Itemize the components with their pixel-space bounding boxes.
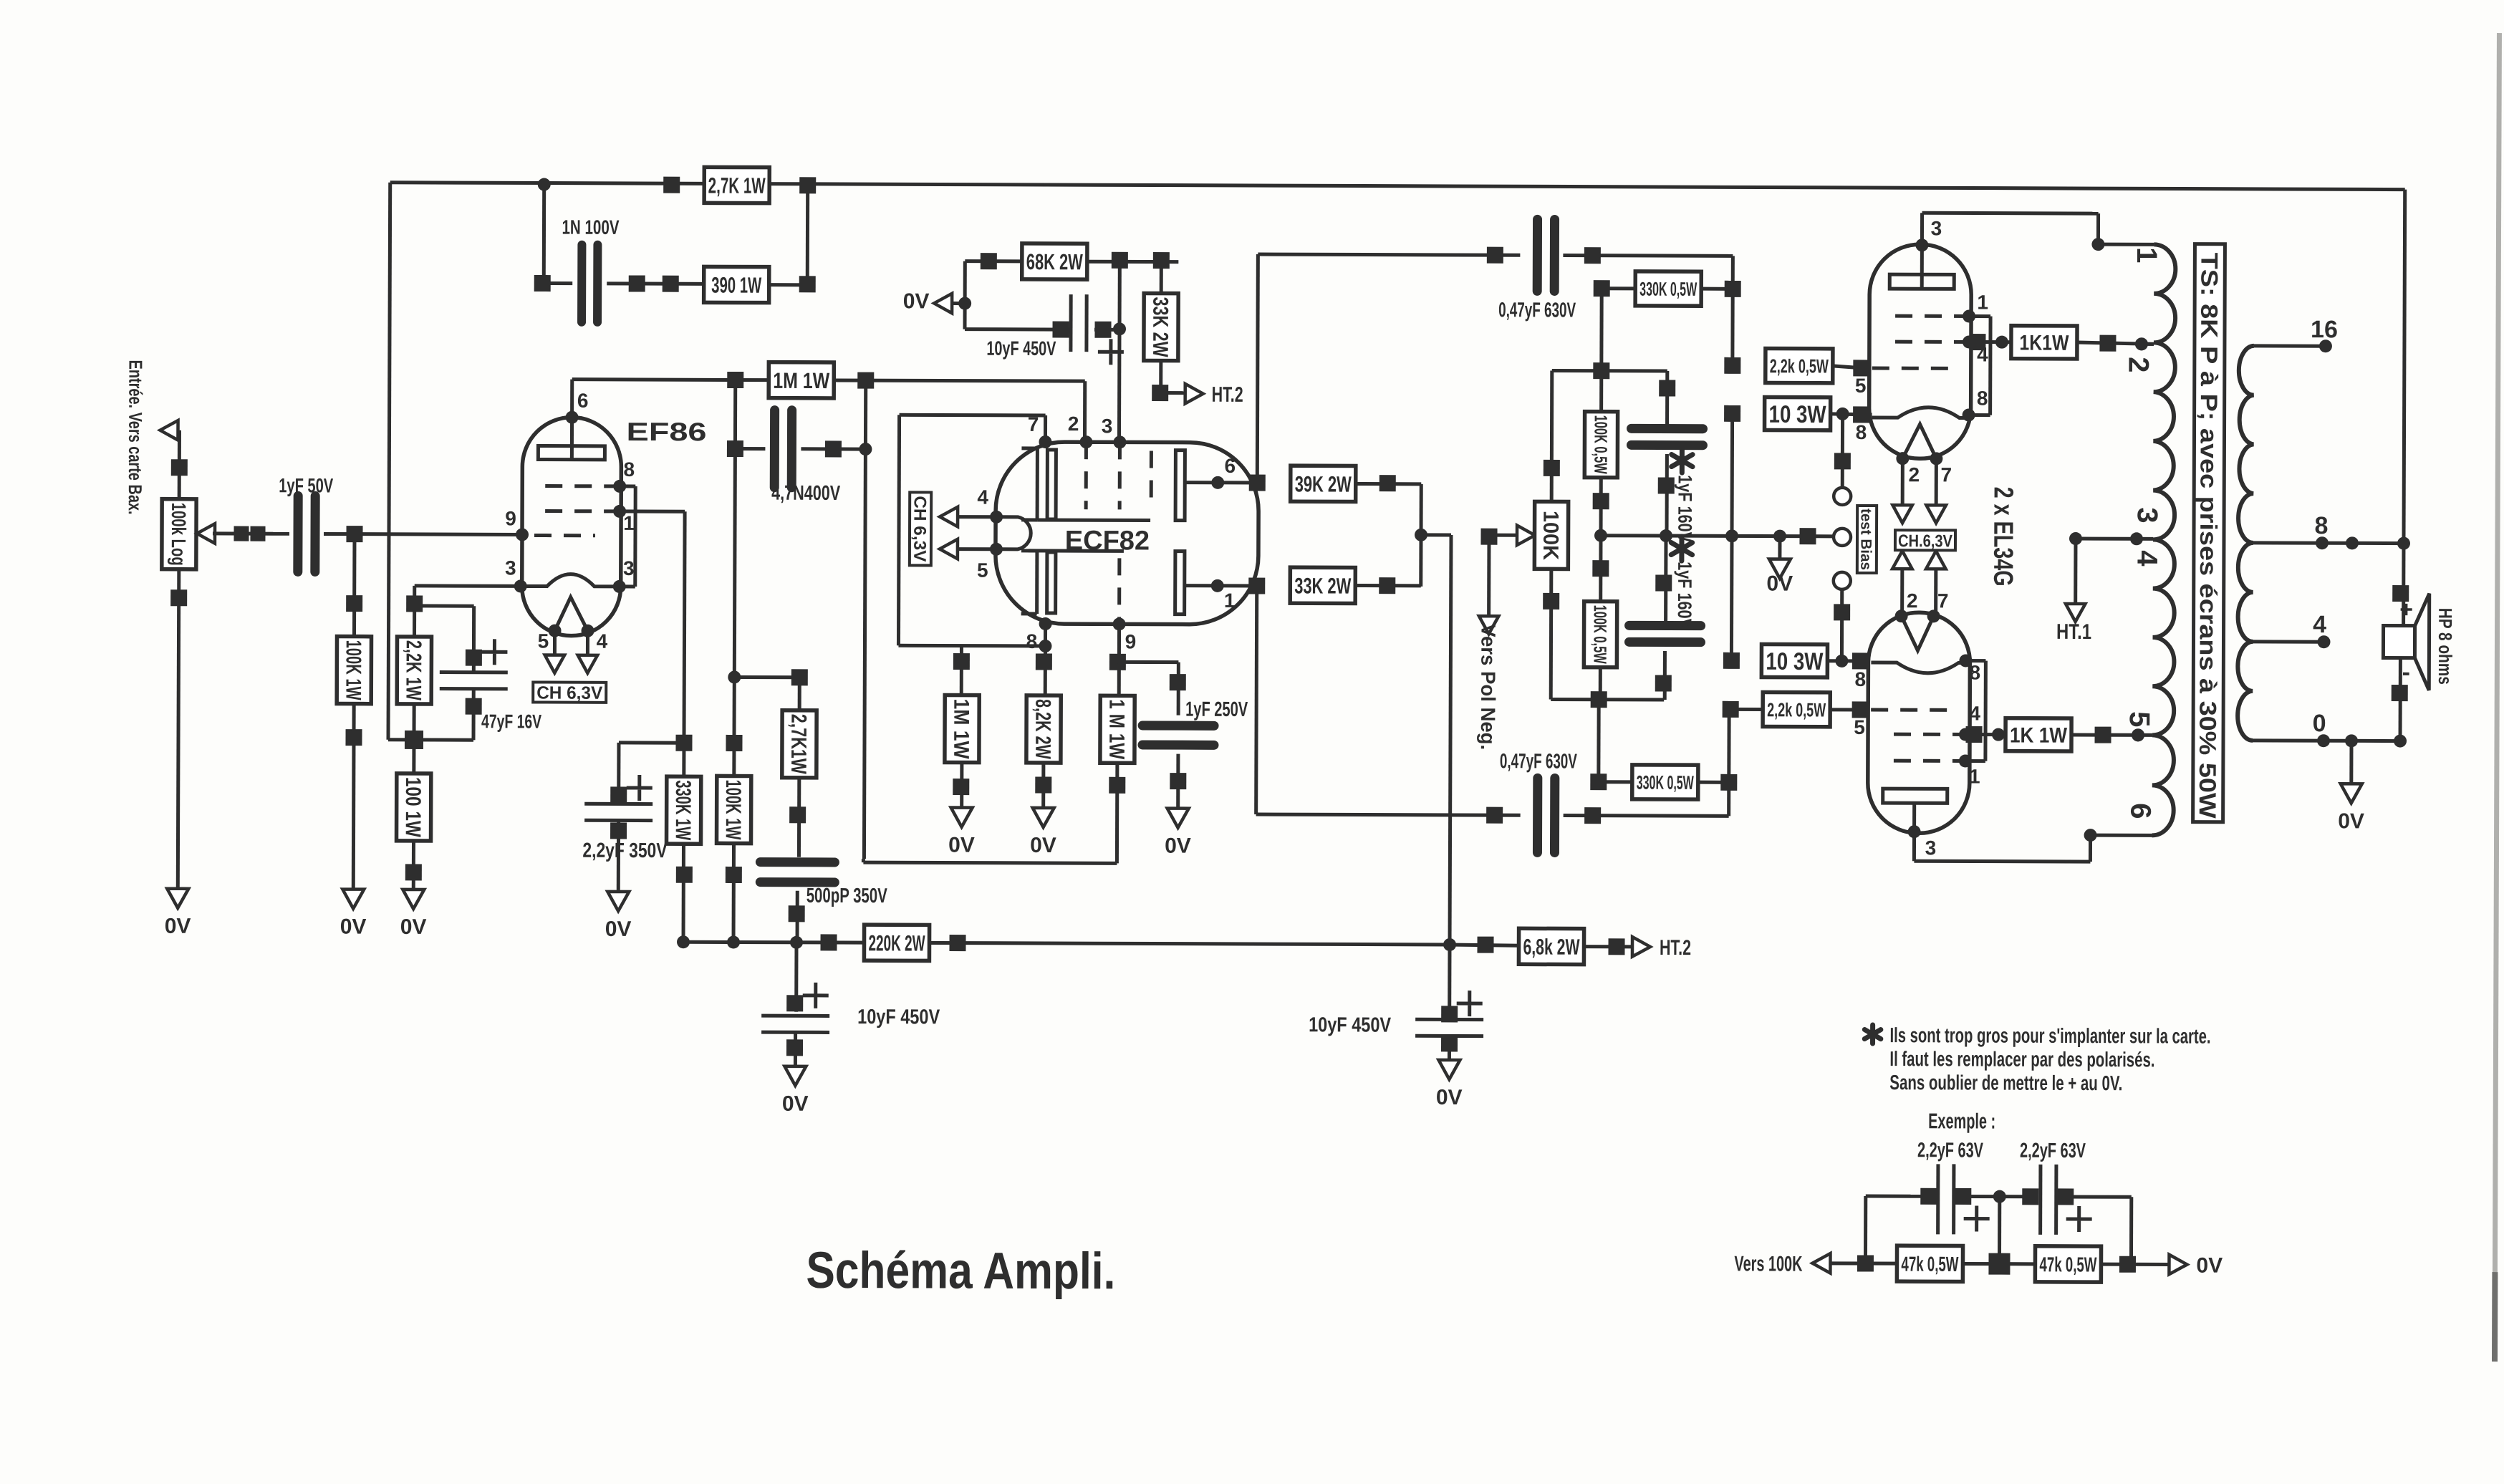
svg-text:500pP 350V: 500pP 350V: [806, 885, 888, 907]
EL34 bottom pins bracket 8-4-1: [1959, 654, 1972, 667]
arrow HT.2 output: [1185, 384, 1203, 404]
wire upper plate node to top coupling cap: [1257, 254, 1258, 483]
EL34 top pin 3 plate: [1915, 238, 1928, 251]
wire speaker bottom to 0 tap: [2399, 658, 2402, 741]
wire pot top lead: [1550, 370, 1554, 501]
wire pin9 leak return to grid node: [863, 862, 1117, 863]
svg-text:8: 8: [1977, 387, 1988, 410]
svg-text:0V: 0V: [1030, 834, 1056, 857]
resistor R 100 1W feedback: [412, 740, 415, 774]
label asterisk 1yF 160V upper: [1672, 448, 1693, 473]
svg-text:5: 5: [1855, 375, 1867, 397]
capacitor C 500pP 350V: [760, 857, 834, 867]
EF86 heater pin 4 arrow: [586, 631, 589, 656]
svg-text:10 3W: 10 3W: [1769, 401, 1827, 428]
example right loop down: [2129, 1197, 2133, 1264]
capacitor C 4,7N 400V parallel: [733, 380, 737, 448]
svg-text:5: 5: [2124, 711, 2155, 727]
wire pot bottom lead: [1549, 569, 1554, 699]
resistor R 100K 0,5W lower: [1599, 536, 1602, 602]
resistor R 330K 0,5W bottom: [1597, 700, 1600, 782]
EL34 bottom getter: [1883, 789, 1947, 803]
resistor R 8,2K 2W ECF82 pin8: [1044, 624, 1047, 696]
svg-text:47yF 16V: 47yF 16V: [481, 710, 541, 732]
svg-text:4: 4: [2131, 550, 2162, 567]
resistor R 2,2k 0,5W top grid: [1724, 357, 1740, 374]
wire feedback right vertical down to 8-ohm tap: [2404, 190, 2405, 544]
svg-text:5: 5: [1854, 716, 1865, 738]
resistor R 2,2K 1W cathode: [397, 637, 431, 704]
ECF82 internal cathode lines: [1036, 449, 1039, 520]
label CH.6,3V EL34 heaters: [1895, 530, 1955, 550]
svg-text:1N 100V: 1N 100V: [562, 216, 619, 238]
capacitor C 47yF 16V cathode bypass: [481, 639, 507, 665]
svg-text:7: 7: [1937, 589, 1949, 612]
svg-text:0V: 0V: [782, 1092, 809, 1116]
capacitor C 10yF 450V left filter: [794, 943, 798, 1012]
example capacitor 2,2yF 63V right: [2022, 1188, 2038, 1205]
wire EF86 plate pin6 up and right: [570, 380, 574, 418]
label CH 6,3V EF86 heater: [533, 682, 606, 702]
example arrow 0V: [2169, 1255, 2187, 1275]
ECF82 internal connect lines: [1037, 518, 1150, 522]
svg-text:2: 2: [1908, 463, 1920, 486]
svg-text:10yF 450V: 10yF 450V: [986, 337, 1056, 360]
capacitor C 1yF 160V lower: [1664, 536, 1667, 621]
ground 0V 1yF 250V: [1167, 809, 1189, 828]
svg-text:16: 16: [2311, 316, 2338, 343]
svg-text:CH 6,3V: CH 6,3V: [910, 496, 929, 562]
EF86 pin 1 dashed row: [545, 509, 620, 513]
svg-text:3: 3: [1925, 837, 1937, 859]
svg-text:220K 2W: 220K 2W: [868, 930, 925, 955]
wire 39K-33K join vertical: [1419, 484, 1422, 587]
wire EF86 pin3 cathode to 2,2K: [415, 584, 521, 588]
svg-text:0V: 0V: [400, 915, 427, 939]
transformer T1 secondary winding: [2238, 346, 2254, 741]
svg-text:6: 6: [1225, 455, 1236, 477]
svg-text:1M 1W: 1M 1W: [773, 368, 830, 393]
capacitor C 0,47yF 630V top: [1533, 219, 1542, 291]
svg-text:2: 2: [1907, 589, 1918, 612]
svg-text:1yF 160V: 1yF 160V: [1674, 562, 1695, 629]
resistor R 2,7K1W branch: [734, 675, 799, 679]
capacitor C 1yF 250V: [1117, 660, 1178, 664]
svg-text:3: 3: [1102, 415, 1113, 437]
capacitor C 0,47yF 630V bottom: [1533, 778, 1542, 852]
svg-text:6: 6: [577, 390, 589, 412]
node A top-rail junction x=757: [538, 178, 551, 191]
resistor R 330K 1W from EF86 pin1: [675, 735, 692, 751]
svg-text:8: 8: [623, 458, 635, 481]
svg-text:33K 2W: 33K 2W: [1148, 297, 1172, 357]
example mid junction: [1988, 1253, 2010, 1275]
svg-text:6: 6: [2124, 803, 2156, 819]
svg-text:2,2yF 350V: 2,2yF 350V: [582, 839, 668, 862]
svg-text:0V: 0V: [605, 917, 632, 941]
svg-text:0V: 0V: [2196, 1254, 2223, 1278]
svg-text:100K 1W: 100K 1W: [721, 779, 745, 840]
wire cap to EF86 grid pin 9: [324, 532, 522, 536]
ground 0V 8,2K: [1033, 808, 1054, 827]
EL34 top getter: [1889, 274, 1954, 289]
EF86 heater V: [555, 597, 588, 631]
svg-text:1yF 250V: 1yF 250V: [1185, 698, 1248, 721]
EL34 top heater V: [1902, 424, 1936, 458]
svg-text:9: 9: [505, 507, 516, 529]
EF86 cathode line and arc pin 3: [514, 579, 527, 592]
resistor R 100K 1W grid leak: [353, 534, 355, 890]
svg-text:100K 1W: 100K 1W: [341, 640, 365, 701]
svg-text:100 1W: 100 1W: [401, 777, 425, 838]
svg-text:0: 0: [2313, 710, 2326, 737]
svg-text:0V: 0V: [2338, 809, 2364, 833]
resistor R 10 3W top cathode: [1730, 413, 1735, 536]
svg-text:Vers Pol Neg.: Vers Pol Neg.: [1477, 624, 1500, 750]
EF86 heater pin 5 arrow: [553, 631, 557, 656]
potentiometer P1 100k Log: [162, 499, 196, 569]
svg-text:0V: 0V: [903, 289, 930, 313]
ground 0V feedback resistor: [403, 890, 424, 909]
svg-text:3: 3: [505, 556, 516, 579]
potentiometer P2 100K bias: [1489, 534, 1518, 537]
pot wiper arrow: [197, 524, 215, 544]
arrow HT.1 center tap: [2074, 539, 2077, 603]
ground 0V bias rail: [1778, 536, 1781, 559]
svg-text:3: 3: [623, 557, 635, 579]
svg-text:33K 2W: 33K 2W: [1294, 573, 1352, 598]
svg-text:8: 8: [1970, 661, 1981, 683]
resistor R 1M 1W below heater loop: [960, 646, 963, 695]
EL34 top cathode arc: [1872, 408, 1968, 418]
svg-text:330K 0,5W: 330K 0,5W: [1639, 279, 1697, 300]
svg-text:330K 1W: 330K 1W: [671, 780, 695, 841]
svg-text:68K 2W: 68K 2W: [1026, 249, 1084, 274]
resistor R 100K 0,5W upper: [1599, 371, 1603, 413]
svg-text:4: 4: [977, 486, 988, 509]
EL34 top pins bracket 1-4-8: [1969, 314, 1990, 318]
example resistor 47k 0,5W left: [1897, 1245, 1963, 1281]
resistor R 1K1W top screen: [1978, 340, 2011, 344]
svg-text:10yF 450V: 10yF 450V: [1309, 1013, 1392, 1036]
terminal test bias mid: [1834, 529, 1851, 546]
svg-text:Entrée. Vers carte Bax.: Entrée. Vers carte Bax.: [125, 360, 147, 515]
svg-text:1M 1W: 1M 1W: [949, 699, 973, 760]
svg-text:8,2K 2W: 8,2K 2W: [1031, 699, 1054, 760]
svg-text:1: 1: [1977, 291, 1988, 314]
svg-text:1yF 50V: 1yF 50V: [279, 474, 333, 496]
arrow 0V screen filter: [934, 294, 952, 314]
EL34 bottom cathode arc: [1871, 662, 1967, 673]
svg-text:1: 1: [623, 512, 635, 534]
EF86 pin 6 plate top: [566, 411, 579, 424]
arrow HT.2 right output: [1632, 937, 1650, 957]
resistor R 33K 2W to HT.2: [1160, 261, 1163, 294]
ECF82 internal plate bars: [1047, 450, 1056, 519]
wire cathode resistor bottom to feedback node: [413, 704, 416, 740]
EL34 bottom pin 3 plate: [1908, 825, 1921, 838]
EL34 bottom plate wire to transformer: [1912, 832, 1916, 861]
speaker HP 8 ohms: [2383, 626, 2414, 658]
svg-text:100k Log: 100k Log: [168, 503, 190, 566]
terminal test bias bottom: [1834, 572, 1851, 589]
svg-text:330K 0,5W: 330K 0,5W: [1637, 772, 1694, 794]
svg-text:10yF 450V: 10yF 450V: [857, 1006, 940, 1028]
svg-text:Vers 100K: Vers 100K: [1734, 1252, 1802, 1276]
svg-text:EF86: EF86: [626, 417, 706, 446]
note asterisk remark: [1864, 1025, 1881, 1044]
ground 0V 1M: [951, 808, 973, 827]
svg-text:100K 0,5W: 100K 0,5W: [1589, 605, 1609, 664]
svg-text:2,2yF 63V: 2,2yF 63V: [2020, 1139, 2086, 1162]
ground 0V left filter: [784, 1066, 806, 1086]
transformer primary taps 3 4 center: [2076, 537, 2153, 541]
ground 0V pot bottom: [167, 889, 188, 908]
resistor R 2,2k 0,5W bottom grid: [1723, 701, 1739, 718]
svg-text:1K1W: 1K1W: [2019, 332, 2069, 355]
tube V4 EL34 bottom envelope: [1868, 612, 1970, 833]
svg-text:6,8k 2W: 6,8k 2W: [1523, 934, 1580, 959]
svg-text:Schéma Ampli.: Schéma Ampli.: [806, 1242, 1115, 1301]
svg-text:100K 0,5W: 100K 0,5W: [1590, 415, 1610, 474]
EL34 top plate wire to transformer: [1920, 213, 1924, 245]
ground 0V right filter: [1438, 1060, 1460, 1079]
svg-text:2,2k 0,5W: 2,2k 0,5W: [1770, 355, 1829, 377]
wire feedback left vertical x=542 down to cathode node: [388, 183, 390, 740]
example mid vertical: [1998, 1197, 2001, 1255]
svg-text:1: 1: [1224, 589, 1236, 612]
wire stub down from rail to 390 row: [542, 185, 546, 284]
svg-text:8: 8: [1854, 668, 1866, 690]
svg-text:9: 9: [1125, 630, 1137, 652]
transformer primary tap 2: [2142, 342, 2154, 346]
transformer T1 primary winding: [2152, 244, 2176, 835]
capacitor C 2,2yF 350V: [619, 741, 684, 744]
svg-text:2,7K 1W: 2,7K 1W: [708, 173, 766, 198]
resistor R 1K 1W bottom screen: [1974, 733, 2005, 736]
wire plate node down x=1025: [734, 448, 736, 776]
wire speaker from 8 tap: [2402, 544, 2405, 626]
svg-text:1 M 1W: 1 M 1W: [1104, 699, 1128, 760]
svg-text:-: -: [2402, 659, 2410, 686]
resistor R 2,7K 1W: [663, 177, 680, 193]
svg-text:5: 5: [977, 559, 988, 582]
svg-text:0V: 0V: [1436, 1086, 1463, 1109]
label CH 6,3V ECF82 heater: [910, 492, 931, 565]
example capacitor 2,2yF 63V left: [1936, 1164, 1940, 1234]
wire ECF82 pin2 grid drop: [1083, 381, 1087, 441]
svg-text:CH.6,3V: CH.6,3V: [1898, 531, 1952, 551]
resistor R 1M 1W plate to ECF82 grid: [769, 362, 834, 398]
ECF82 bottom pins 8 9: [1039, 617, 1052, 630]
resistor R 220K 2W dropper: [820, 934, 837, 950]
svg-text:10 3W: 10 3W: [1766, 648, 1824, 675]
wire top cap to grid column: [1730, 256, 1735, 365]
svg-text:HP 8 ohms: HP 8 ohms: [2435, 608, 2456, 685]
ECF82 top pins 7 2 3: [1039, 435, 1051, 448]
ECF82 internal dashed grids: [1084, 442, 1088, 509]
wire HT.2 long rail y=1318: [683, 942, 1450, 945]
transformer primary tap 5: [2132, 728, 2144, 741]
svg-text:39K 2W: 39K 2W: [1295, 471, 1352, 496]
svg-text:Il faut les remplacer par des: Il faut les remplacer par des polarisés.: [1889, 1048, 2154, 1071]
svg-text:0V: 0V: [340, 915, 367, 939]
svg-text:3: 3: [1931, 217, 1942, 239]
svg-text:4,7N400V: 4,7N400V: [771, 482, 841, 505]
wire feedback node horizontal: [388, 738, 473, 741]
example top loop wire: [1864, 1196, 1867, 1263]
svg-text:390 1W: 390 1W: [711, 273, 762, 298]
wire wiper to coupling cap: [213, 531, 289, 535]
EL34 bottom heater V: [1901, 616, 1933, 650]
ECF82 pin 1 plate wire: [1184, 584, 1257, 587]
svg-text:+: +: [2399, 597, 2413, 622]
svg-text:3: 3: [2132, 507, 2163, 523]
transformer secondary tap 4: [2253, 640, 2324, 643]
svg-text:47k 0,5W: 47k 0,5W: [2039, 1253, 2097, 1276]
wire feedback top rail from x=542 to right edge: [390, 183, 2405, 190]
tube V1 EF86 envelope: [522, 417, 622, 635]
svg-text:1: 1: [2131, 247, 2162, 263]
svg-text:test Bias: test Bias: [1857, 509, 1874, 570]
transformer secondary tap 16: [2254, 344, 2326, 347]
arrow Vers Pol Neg: [1487, 535, 1491, 615]
svg-text:0V: 0V: [1165, 834, 1191, 858]
svg-text:4: 4: [1969, 702, 1980, 724]
EF86 pin 8 dashed grid row: [545, 484, 620, 488]
svg-text:0,47yF 630V: 0,47yF 630V: [1498, 299, 1576, 322]
svg-text:1yF 160V: 1yF 160V: [1674, 475, 1695, 542]
EL34 top dashed rows pins 1 4 5: [1895, 314, 1969, 318]
svg-text:8: 8: [1026, 630, 1038, 652]
svg-text:2,2yF 63V: 2,2yF 63V: [1917, 1139, 1984, 1162]
EF86 pin 9 control grid dashed: [534, 534, 595, 537]
svg-text:0V: 0V: [165, 915, 191, 938]
svg-text:7: 7: [1028, 413, 1039, 435]
ECF82 heater D-bump: [996, 517, 1031, 549]
label test Bias: [1857, 506, 1877, 573]
transformer secondary tap 0: [2253, 738, 2400, 743]
svg-text:TS: 8K P à P; avec prises écra: TS: 8K P à P; avec prises écrans à 30% 5…: [2195, 253, 2223, 819]
svg-text:4: 4: [597, 630, 608, 652]
resistor R 100K 1W plate load: [717, 776, 751, 843]
svg-text:0V: 0V: [948, 834, 975, 857]
tube V3 EL34 top envelope: [1869, 244, 1971, 458]
wire pot bottom to ground: [178, 569, 179, 889]
capacitor C 10yF 450V screen filter: [963, 304, 967, 329]
resistor R 330K 0,5W top: [1599, 289, 1603, 371]
svg-text:Ils sont trop gros pour s'impl: Ils sont trop gros pour s'implanter sur …: [1890, 1024, 2211, 1049]
resistor R 10 3W bottom cathode: [1730, 536, 1734, 660]
wire lower plate node to bottom coupling cap: [1256, 586, 1257, 814]
wire bias mid rail 0V: [1601, 536, 1834, 536]
svg-text:0V: 0V: [1766, 572, 1793, 596]
input arrow to carte Bax: [160, 420, 178, 440]
ground 0V secondary: [2349, 741, 2353, 784]
ground 0V grid leak: [342, 890, 364, 909]
svg-text:7: 7: [1940, 463, 1952, 486]
EF86 pin 1 wire to 330K 1W: [620, 509, 685, 513]
resistor R 1 M 1W ECF82 pin9: [1117, 624, 1121, 696]
svg-text:8: 8: [1856, 421, 1867, 443]
wire 47yF branch top: [415, 604, 474, 607]
svg-text:Sans oublier de mettre le + au: Sans oublier de mettre le + au 0V.: [1889, 1071, 2122, 1095]
svg-text:2,7K1W: 2,7K1W: [786, 714, 810, 775]
svg-text:8: 8: [2315, 512, 2329, 539]
svg-text:2: 2: [2122, 357, 2154, 372]
svg-text:2 x EL34G: 2 x EL34G: [1988, 487, 2018, 587]
svg-text:HT.2: HT.2: [1212, 383, 1243, 407]
capacitor C 10yF 450V right filter: [1448, 945, 1451, 1014]
svg-text:1: 1: [1969, 765, 1980, 787]
wire 4,7N right to vertical x=1207: [864, 380, 865, 859]
svg-text:2: 2: [1068, 413, 1079, 435]
svg-text:47k 0,5W: 47k 0,5W: [1901, 1253, 1959, 1276]
transformer core label TS: [2193, 244, 2225, 822]
EF86 pins 8-1-3 bracket: [620, 484, 635, 488]
example resistor 47k 0,5W right: [2035, 1246, 2101, 1282]
svg-text:1K 1W: 1K 1W: [2010, 723, 2068, 747]
wire ECF82 pin3 screen vertical: [1117, 260, 1122, 441]
ECF82 heater arrow pin 5: [940, 539, 958, 559]
wire bottom cap to grid column: [1727, 709, 1731, 816]
transformer primary tap 1 top: [2098, 243, 2154, 246]
svg-text:5: 5: [538, 630, 549, 652]
tube V2 ECF82 envelope: [996, 442, 1259, 625]
svg-text:HT.1: HT.1: [2056, 620, 2091, 644]
wire right vertical of 2,7K/390 parallel: [806, 185, 809, 284]
svg-text:2,2K 1W: 2,2K 1W: [401, 640, 425, 701]
svg-text:4: 4: [2313, 611, 2326, 638]
svg-text:CH 6,3V: CH 6,3V: [536, 683, 602, 703]
transformer secondary tap 8: [2253, 541, 2404, 545]
capacitor C 1yF 160V upper: [1665, 371, 1669, 425]
EL34 bottom dashed rows: [1871, 708, 1952, 712]
svg-text:100K: 100K: [1538, 511, 1562, 560]
svg-text:2,2k 0,5W: 2,2k 0,5W: [1767, 699, 1826, 721]
resistor R 39K 2W upper plate: [1249, 474, 1266, 491]
ECF82 pin 6 plate wire: [1184, 481, 1257, 484]
label asterisk 1yF 160V lower: [1671, 536, 1692, 561]
resistor R 390 1W: [704, 266, 769, 302]
svg-text:0,47yF 630V: 0,47yF 630V: [1500, 750, 1578, 773]
wire join to HT.2 node: [1421, 533, 1451, 536]
wire ECF82 pin7 heater loop: [1044, 415, 1047, 441]
resistor R 6,8k 2W to HT.2: [1450, 945, 1519, 945]
EL34 top heater arrows down: [1901, 458, 1905, 505]
svg-text:HT.2: HT.2: [1660, 936, 1691, 960]
ground 0V 2,2yF: [607, 892, 629, 911]
svg-text:ECF82: ECF82: [1065, 526, 1150, 556]
EL34 bottom heater arrows up: [1892, 551, 1912, 569]
resistor R 33K 2W lower plate: [1248, 577, 1265, 594]
ECF82 heater arrow pin 4: [940, 507, 958, 527]
scan edge artifact right: [2495, 33, 2499, 1272]
svg-text:Exemple :: Exemple :: [1928, 1109, 1995, 1133]
resistor R 68K 2W: [963, 261, 967, 304]
terminal test bias top: [1841, 414, 1844, 488]
EF86 getter plate rectangle: [538, 446, 605, 460]
